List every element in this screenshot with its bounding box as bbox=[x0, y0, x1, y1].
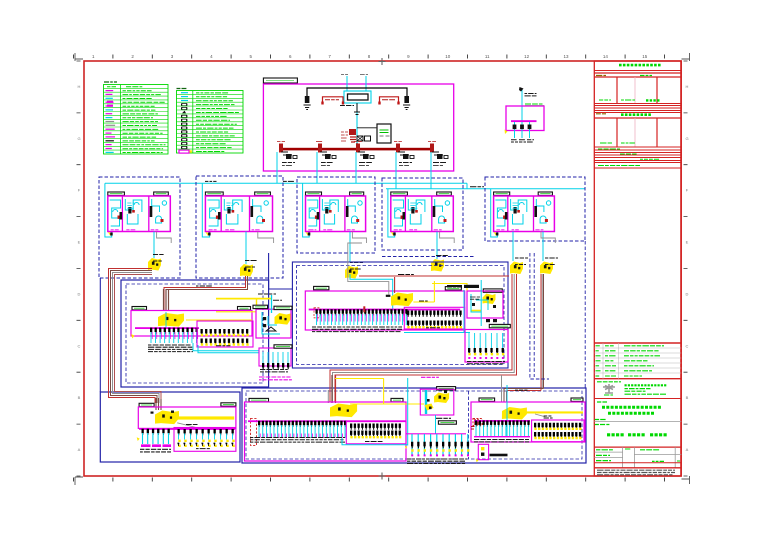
unit 5 meter drop wire bbox=[542, 232, 544, 262]
panel AP1 meter internal wire bbox=[165, 312, 167, 328]
unit 2 header bar A bbox=[205, 192, 223, 195]
panel AP1 branch drops bbox=[151, 332, 197, 343]
panel AP3 sub-box dots row 2 bbox=[178, 445, 234, 447]
unit 1 cell 3 starter circuit bbox=[152, 199, 160, 212]
svg-text:11: 11 bbox=[485, 54, 490, 59]
pump panel AP1 feed label bbox=[196, 285, 212, 287]
unit RTU box 1 bbox=[99, 177, 180, 278]
panel AP3 circuit labels bbox=[140, 449, 171, 452]
enclosure box group 2 bbox=[292, 262, 508, 368]
panel AW3 drops bbox=[469, 333, 503, 352]
panel AP3 header bar A bbox=[139, 403, 154, 406]
meter cabinet sub-box drops bbox=[263, 352, 288, 364]
panel AP5 enclosure bbox=[471, 402, 585, 442]
unit 1 ground mark bbox=[108, 232, 112, 236]
unit 2 cell 2 starter circuit bbox=[224, 199, 242, 212]
centre fold mark top bbox=[379, 58, 386, 65]
bus riser joint bbox=[356, 143, 358, 148]
panel AP4 enclosure bbox=[245, 402, 407, 461]
enclosure box group 4 inner dashed bbox=[246, 391, 582, 459]
AP5 feeder label bbox=[515, 389, 528, 391]
unit 2 cell 1 starter circuit bbox=[208, 200, 220, 226]
project title line 1 bbox=[602, 406, 661, 409]
note text under bands bbox=[598, 165, 640, 167]
trunk wire link bbox=[466, 183, 468, 189]
svg-text:E: E bbox=[78, 240, 81, 245]
main switchboard AA1 enclosure bbox=[263, 84, 453, 171]
company name text bbox=[625, 384, 667, 386]
title block outer frame bbox=[594, 61, 681, 476]
unit 4 spare gray wire bbox=[440, 232, 455, 244]
unit 4 cell 3 starter circuit bbox=[435, 199, 443, 212]
panel AP5 gray leader bbox=[535, 414, 545, 417]
panel AP4 bus bbox=[248, 420, 406, 422]
panel AP5 header bar A bbox=[479, 398, 495, 401]
column ruler ticks bottom bbox=[74, 478, 665, 482]
feeder wire label bbox=[398, 274, 414, 276]
unit 1 feeder loop bbox=[105, 183, 112, 237]
panel AP2 header bar B bbox=[445, 287, 461, 290]
unit 5 cell 1 starter circuit bbox=[495, 200, 506, 226]
title table top line bbox=[594, 446, 681, 448]
panel AP5 header bar B bbox=[571, 398, 583, 401]
svg-text:D: D bbox=[686, 292, 689, 297]
unit 3 cell 2 starter circuit bbox=[322, 199, 338, 212]
legend table 1 rows bbox=[107, 86, 116, 88]
enclosure box group 1 inner dashed bbox=[126, 284, 263, 383]
panel AW1 circuit labels bbox=[511, 140, 518, 142]
panel AP4 meter blob bbox=[330, 404, 357, 418]
feeder breaker group F5 bbox=[430, 144, 434, 153]
unit 3 meter drop wire bbox=[349, 232, 351, 263]
project title line 2 bbox=[608, 412, 654, 415]
panel AP4 breaker row bbox=[258, 421, 346, 427]
feeder breaker group F3 bbox=[356, 144, 360, 153]
left spine wire bbox=[99, 278, 101, 392]
svg-text:A: A bbox=[686, 447, 689, 452]
panel AW2 yellow band bbox=[471, 310, 482, 312]
cable bundle from meter M2 to pump panel AP1 bbox=[164, 276, 246, 311]
control box bbox=[377, 124, 391, 143]
cyan run below AW3 bbox=[471, 346, 503, 348]
panel AP2 header bar A bbox=[314, 286, 329, 289]
wire tag bar 1 bbox=[447, 285, 462, 289]
street load labels bbox=[407, 459, 467, 463]
unit 2 spare gray wire bbox=[258, 232, 274, 244]
unit 3 header bar B bbox=[350, 192, 364, 195]
panel AP3 bus bbox=[139, 428, 235, 430]
unit 4 meter drop wire bbox=[436, 232, 438, 260]
unit RTU box 2 bbox=[196, 176, 283, 278]
panel AP2 branch drops bbox=[317, 314, 407, 325]
meter cabinet sub-box header bbox=[274, 345, 292, 348]
panel AP4 sub-box bbox=[346, 422, 406, 444]
panel AP1 yellow wires bbox=[216, 311, 256, 313]
riser to control box wire bbox=[357, 127, 376, 129]
isolator QS1 bbox=[354, 103, 360, 115]
legend table 2 frame bbox=[177, 91, 244, 154]
meter cabinet sub-box breaker row bbox=[262, 363, 289, 369]
panel AP4 circuit labels bbox=[250, 438, 345, 443]
trunk wire level 2 bbox=[386, 188, 585, 190]
unit 5 spare gray wire bbox=[541, 232, 555, 244]
panel AP4 meter cabinet right bbox=[420, 389, 454, 415]
panel AP1 sub-box dots 1 bbox=[201, 334, 249, 336]
panel AP2 breaker row bbox=[316, 309, 408, 315]
panel AP2 circuit labels bbox=[312, 327, 402, 332]
title table cell texts bbox=[596, 449, 613, 451]
schedule table 1 bbox=[616, 77, 618, 104]
svg-text:G: G bbox=[77, 136, 80, 141]
LV main bus bbox=[279, 148, 434, 151]
street load bus bbox=[406, 433, 466, 435]
revision table top line bbox=[594, 342, 681, 344]
panel AW2 meter blob bbox=[482, 294, 495, 305]
revision table rows bbox=[594, 347, 681, 349]
svg-text:15: 15 bbox=[642, 54, 648, 59]
unit 1 cell 1 starter circuit bbox=[110, 200, 121, 226]
meter cabinet header bar bbox=[274, 306, 292, 309]
panel AP5 sub-box bbox=[532, 420, 584, 442]
row ruler marks left bbox=[77, 61, 81, 476]
svg-text:13: 13 bbox=[563, 54, 569, 59]
panel AP4 header bar A bbox=[249, 398, 269, 401]
panel AP1 sub-box dots 2 bbox=[201, 343, 249, 345]
unit 4 ground mark bbox=[391, 232, 395, 236]
panel AW3 header bar bbox=[489, 324, 510, 327]
svg-text:H: H bbox=[686, 84, 689, 89]
panel AP2 sub-box breaker row 1 bbox=[407, 311, 462, 317]
svg-text:C: C bbox=[686, 343, 689, 348]
unit 5 feeder loop bbox=[491, 189, 498, 237]
title table rows bbox=[594, 451, 622, 453]
panel AP4 incoming dashed red box bbox=[251, 418, 257, 445]
svg-text:A: A bbox=[78, 447, 81, 452]
street load corner mark bbox=[405, 446, 408, 449]
meter cabinet header bar left bbox=[253, 305, 268, 308]
svg-text:12: 12 bbox=[524, 54, 530, 59]
unit 2 ground mark bbox=[205, 232, 209, 236]
unit 3 header bar A bbox=[306, 192, 322, 195]
panel AP5 meter blob bbox=[502, 407, 527, 420]
meter cabinet enclosure bbox=[256, 309, 291, 338]
panel AP5 sub-box breaker row 2 bbox=[534, 432, 581, 438]
title block band 1 text bbox=[596, 75, 606, 77]
street load dots bbox=[411, 449, 469, 451]
unit 4 cell labels bbox=[394, 229, 402, 231]
drawing name text bbox=[607, 433, 624, 436]
cable bundle from meter M1 to pump panel AP3 bbox=[109, 269, 156, 404]
title table columns bbox=[622, 447, 624, 468]
panel AP3 sub-box dots row 1 bbox=[178, 440, 234, 442]
panel AP5 sub-box dots 2 bbox=[534, 437, 581, 439]
panel AP3 enclosure bbox=[138, 407, 236, 428]
schedule table 2 text bbox=[600, 142, 612, 144]
panel AP4 sub-box breaker row 2 bbox=[350, 431, 401, 437]
panel AP2 bottom cyan wire bbox=[404, 332, 470, 334]
svg-text:14: 14 bbox=[603, 54, 609, 59]
secondary riser bbox=[356, 103, 358, 148]
energy meter M3 bbox=[345, 266, 358, 279]
unit 1 cell labels bbox=[111, 229, 119, 231]
schedule table 1 bottom lines bbox=[594, 103, 681, 105]
incoming feeder labels bbox=[341, 74, 348, 76]
panel AP1 meter blob bbox=[158, 313, 184, 327]
dashed blue feeder to AP5 b bbox=[533, 253, 535, 377]
panel AP1 sub-box breaker row 2 bbox=[201, 339, 249, 345]
unit 5 header bar B bbox=[538, 192, 552, 195]
unit 1 header bar A bbox=[108, 192, 125, 195]
panel AP3 sub-box breaker row bbox=[178, 429, 234, 435]
drawing frame border bbox=[84, 61, 681, 476]
feeder breaker group F1 bbox=[279, 144, 283, 153]
panel AP1 sub-box lighting bbox=[197, 321, 253, 347]
street load drop group bbox=[412, 434, 468, 455]
panel AW2 outgoing drop bbox=[480, 280, 482, 326]
meter cabinet label bbox=[258, 293, 276, 295]
unit 2 cell labels bbox=[209, 229, 217, 231]
circuit breaker QF2 bbox=[404, 96, 409, 103]
unit 1 control panel enclosure bbox=[108, 196, 171, 232]
title block header lines bbox=[594, 70, 681, 72]
feeder breaker group F4 bbox=[396, 144, 400, 153]
legend table 2 rows bbox=[181, 92, 188, 93]
unit RTU box 3 bbox=[297, 177, 375, 253]
meter cabinet small sub-box bbox=[259, 348, 291, 366]
panel AP3 sub-box label bbox=[196, 448, 210, 450]
panel AP3 ground mark bbox=[137, 437, 140, 441]
auxiliary contactors bbox=[357, 136, 363, 141]
panel AP3 leader tag bbox=[186, 424, 198, 426]
legend table 1 title bbox=[104, 81, 117, 83]
unit 4 header bar B bbox=[437, 192, 452, 195]
unit 5 header bar A bbox=[494, 192, 510, 195]
panel AW1 branch breakers bbox=[513, 125, 517, 130]
panel AP4 sub-box cyan wrap bbox=[342, 438, 408, 445]
cable bundle from unit 5 to panel AP4 bbox=[330, 274, 512, 402]
panel AW3 labels bbox=[467, 362, 505, 364]
panel AP4 meter cabinet label magenta bbox=[421, 376, 439, 378]
unit 1 cell 2 starter circuit bbox=[125, 199, 142, 212]
panel AP1 feed bundle risers bbox=[164, 289, 169, 311]
title block band 2 text bbox=[596, 113, 606, 115]
panel AP4 drop stubs magenta bbox=[260, 434, 346, 438]
unit 2 control panel enclosure bbox=[205, 196, 272, 232]
unit 3 ground mark bbox=[306, 232, 310, 236]
main wire tie bbox=[307, 88, 407, 96]
unit 4 header bar A bbox=[391, 192, 408, 195]
feeder wire yellow bbox=[432, 284, 467, 292]
panel AP5 leader tag bbox=[544, 416, 553, 418]
cable bundle to panel AP5 bbox=[540, 274, 542, 391]
AP2 sub-box cyan wrap right bbox=[463, 290, 465, 333]
panel AP1 drop stubs magenta bbox=[152, 332, 198, 339]
meter cabinet sub-box labels bbox=[260, 370, 288, 372]
enclosure box group 4 bottom-right bbox=[242, 388, 586, 463]
panel AP5 breaker row bbox=[475, 421, 530, 427]
unit 5 ground mark bbox=[494, 232, 498, 236]
unit 5 cell 3 starter circuit bbox=[536, 199, 544, 212]
panel AP2 feed risers bbox=[394, 277, 396, 293]
svg-text:10: 10 bbox=[445, 54, 451, 59]
panel AW1 name bbox=[525, 103, 543, 105]
schedule table 1 text bbox=[599, 99, 611, 101]
unit RTU box 4 bbox=[382, 178, 463, 250]
meter cabinet internals bbox=[262, 312, 280, 334]
energy meter M5 bbox=[510, 262, 523, 275]
enclosure link lines bbox=[269, 253, 293, 289]
incoming supply risers bbox=[346, 76, 348, 91]
energy meter M2 bbox=[240, 264, 253, 277]
panel AP1 bus bbox=[135, 327, 199, 329]
unit 3 spare gray wire bbox=[352, 232, 366, 244]
column ruler ticks top bbox=[74, 55, 665, 59]
unit 3 cell 3 starter circuit bbox=[348, 199, 356, 212]
svg-text:B: B bbox=[78, 395, 81, 400]
unit 1 meter drop wire bbox=[153, 232, 155, 259]
panel AW2 outgoing taps bbox=[486, 319, 490, 322]
unit RTU box 5 bbox=[485, 177, 585, 241]
panel AP4 tag text below cabinet bbox=[436, 417, 451, 419]
svg-text:H: H bbox=[78, 84, 81, 89]
wire tag bar 2 bbox=[464, 285, 479, 288]
unit 3 cell 1 starter circuit bbox=[307, 200, 317, 226]
panel AP1 sub-box breaker row 1 bbox=[201, 329, 249, 335]
logo section bottom line bbox=[594, 398, 681, 400]
legend table 2 title bbox=[177, 88, 187, 90]
unit 2 meter drop wire bbox=[245, 232, 247, 265]
unit 5 control panel enclosure bbox=[494, 196, 555, 232]
panel AP2 red tick mark bbox=[363, 306, 365, 312]
band row texts bbox=[598, 148, 620, 150]
panel AP3 blob detail marks bbox=[151, 412, 154, 414]
panel AP4 header bar B bbox=[391, 398, 403, 401]
panel AW2 enclosure bbox=[467, 291, 503, 318]
svg-text:E: E bbox=[686, 240, 689, 245]
disclaimer text block bbox=[597, 470, 675, 475]
panel AW2 internals bbox=[471, 294, 481, 312]
panel AP5 incoming red cluster bbox=[473, 419, 482, 426]
panel AW1 ground mark bbox=[505, 130, 508, 135]
panel AP3 yellow band bbox=[177, 416, 234, 419]
panel AP2 yellow wire tag bbox=[419, 300, 428, 302]
transformer TM1 cubicle bbox=[344, 91, 371, 103]
panel AP2 sub-box label bbox=[426, 327, 440, 329]
energy meter M6 bbox=[540, 262, 553, 275]
panel AP4 yellow wires bbox=[335, 378, 384, 380]
voltage transformer PT1 bbox=[323, 97, 344, 104]
enclosure box group 1 bbox=[121, 280, 269, 387]
centre fold mark bottom bbox=[379, 473, 386, 480]
unit 3 to AP2 cyan feed bbox=[350, 274, 393, 309]
panel AP2 feed tap marks bbox=[386, 295, 391, 297]
meter cabinet sub-box labels magenta bbox=[259, 377, 292, 380]
cabinet feed tag bbox=[273, 299, 282, 301]
panel AP1 circuit labels bbox=[148, 345, 193, 352]
panel AP5 small box tag bar bbox=[490, 454, 508, 457]
unit 4 feeder loop bbox=[388, 189, 395, 237]
panel AP2 meter blob bbox=[391, 293, 413, 307]
panel AP3 feed risers bbox=[156, 398, 161, 410]
panel AW3 magenta squares bbox=[468, 357, 504, 359]
panel AP3 sub-box tick feet bbox=[178, 443, 234, 446]
panel AP2 enclosure bbox=[305, 291, 464, 330]
panel AP3 sub-box bbox=[174, 428, 236, 452]
title block header text bbox=[619, 64, 661, 67]
panel AP3 branch drops bbox=[143, 433, 169, 444]
panel AP2 sub-box bbox=[404, 307, 464, 329]
panel AP4 sub-box dots bbox=[350, 436, 401, 438]
panel AP5 branch drops bbox=[476, 425, 528, 437]
feeder breaker group F2 bbox=[318, 144, 322, 153]
unit 2 cell 3 starter circuit bbox=[253, 199, 261, 212]
panel AP5 sub-box breaker row 1 bbox=[534, 423, 581, 429]
panel AP2 yellow wire from meter bbox=[413, 301, 434, 303]
unit 5 cell labels bbox=[496, 229, 504, 231]
svg-text:B: B bbox=[686, 395, 689, 400]
unit 3 cell labels bbox=[308, 229, 316, 231]
panel AP5 sub bus bbox=[474, 436, 530, 437]
panel AP4 feed risers bbox=[328, 375, 335, 403]
panel AP3 header bar B bbox=[221, 403, 236, 406]
unit 5 right edge extension bbox=[584, 241, 586, 388]
svg-text:D: D bbox=[78, 292, 81, 297]
energy meter M4 bbox=[431, 259, 444, 272]
panel AW2 header bar bbox=[483, 289, 502, 292]
dashed blue feeder to AP5 a bbox=[530, 253, 549, 379]
panel AP1 enclosure bbox=[131, 311, 252, 337]
panel AW3 dots bbox=[468, 353, 504, 355]
panel AP2 bus bbox=[309, 309, 461, 311]
panel AP4 tag bar white bbox=[438, 421, 456, 424]
enclosure box group 2 inner dashed bbox=[297, 266, 505, 365]
panel AP5 yellow band bbox=[526, 411, 583, 413]
band bottom line bbox=[594, 162, 681, 164]
unit 1 header bar B bbox=[154, 192, 169, 195]
panel AP2 sub-box breaker row 2 bbox=[407, 321, 462, 327]
panel AP5 small meter box below bbox=[478, 444, 488, 459]
panel AP4 sub-box breaker row 1 bbox=[350, 424, 401, 430]
voltage transformer PT2 bbox=[380, 97, 399, 104]
panel AW1 supply tap bbox=[519, 87, 524, 92]
ruler corner marks bbox=[75, 53, 690, 485]
panel AP5 bus bbox=[474, 420, 530, 422]
row ruler marks right bbox=[684, 61, 688, 476]
panel AP3 meter blob bbox=[155, 411, 179, 425]
unit 4 extra boundary line bbox=[382, 256, 475, 258]
panel AP1 header bar B bbox=[238, 307, 251, 310]
panel AP4 branch drops bbox=[259, 425, 345, 438]
schedule table 2 top line bbox=[594, 112, 681, 114]
circuit breaker QF1 bbox=[305, 96, 310, 103]
unit 2 header bar B bbox=[255, 192, 271, 195]
panel AW3 breaker row bbox=[468, 348, 504, 354]
unit 4 cell 1 starter circuit bbox=[393, 200, 404, 226]
panel AP4 sub-box label bbox=[365, 441, 383, 443]
enclosure divider dashed bbox=[468, 391, 470, 459]
schedule table 2 bbox=[616, 118, 618, 147]
panel AP1 outgoing cyan pair bbox=[193, 343, 259, 351]
panel AP2 drop stubs magenta bbox=[318, 314, 408, 322]
feeder drop risers bbox=[276, 152, 278, 183]
panel AP1 header bar A bbox=[132, 307, 147, 310]
panel AP2 sub-box dots bbox=[407, 326, 462, 328]
panel AP5 sub-box dots 1 bbox=[534, 428, 581, 430]
panel AP5 ground mark bbox=[476, 459, 479, 462]
panel AP1 breaker row bbox=[150, 328, 198, 334]
panel AP3 sub-box drops bbox=[179, 434, 233, 440]
panel AP2 incoming dashed red box bbox=[314, 308, 320, 318]
